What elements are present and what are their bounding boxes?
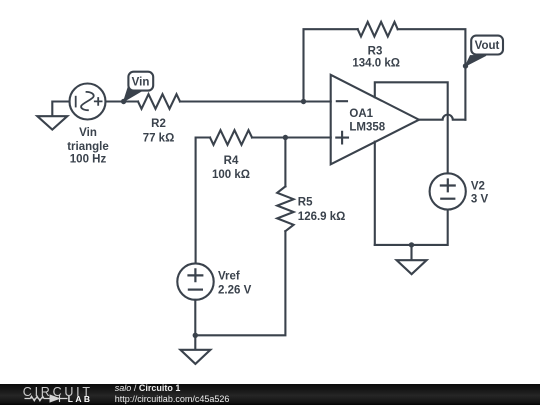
flag Vin box (128, 72, 153, 91)
wire R4 left lead and vertical to Vref (196, 138, 210, 264)
voltage source Vin (V1) (70, 84, 106, 120)
resistor R4 (210, 130, 252, 145)
node dot plus input / R5 (283, 135, 288, 140)
op-amp V+ pin and rail to V2 (375, 82, 448, 173)
op-amp OA1 triangle (331, 75, 419, 165)
svg-text:134.0 kΩ: 134.0 kΩ (352, 58, 400, 70)
svg-text:R3: R3 (368, 45, 383, 57)
ground (Vref) (180, 335, 210, 364)
node dot Vout tap (463, 63, 468, 68)
wire Vin left to ground (52, 102, 69, 116)
wire Vin right to R2 (106, 100, 139, 102)
ground (Vin) (37, 116, 67, 129)
wire R5 bottom to ground rail (195, 231, 285, 335)
op-amp minus symbol (337, 100, 347, 102)
resistor R3 (358, 22, 398, 37)
op-amp plus symbol (336, 132, 348, 144)
voltage source V2 (430, 173, 466, 209)
svg-text:Vout: Vout (475, 40, 500, 52)
svg-text:100 kΩ: 100 kΩ (212, 169, 250, 181)
resistor R5 (277, 186, 293, 231)
voltage source Vref (177, 263, 213, 299)
footer bar (0, 384, 540, 405)
svg-text:LAB: LAB (68, 394, 93, 404)
svg-text:V2: V2 (471, 181, 485, 193)
footer logo resistor-diode glyph (25, 395, 68, 402)
svg-text:R2: R2 (151, 118, 166, 130)
svg-text:R4: R4 (224, 155, 239, 167)
wire R2 to op-amp inverting input (180, 100, 331, 102)
svg-text:100 Hz: 100 Hz (70, 154, 107, 166)
node dot inverting input / R3 (301, 99, 306, 104)
ground (V2 rail) (397, 245, 427, 274)
svg-text:126.9 kΩ: 126.9 kΩ (298, 211, 346, 223)
svg-text:salo / Circuito 1: salo / Circuito 1 (115, 384, 181, 393)
node dot V2 ground rail (409, 242, 414, 247)
svg-text:3 V: 3 V (471, 194, 489, 206)
wire R3 feedback loop left/top/right (304, 29, 466, 120)
svg-text:Vin: Vin (132, 77, 150, 89)
flag Vout pointer (466, 55, 487, 66)
wire plus input from R4/R5 node (285, 136, 330, 138)
svg-text:R5: R5 (298, 196, 313, 208)
svg-text:LM358: LM358 (349, 122, 385, 134)
op-amp output wire with hop (419, 115, 465, 120)
flag Vin pointer (124, 85, 143, 102)
wire R4 right to node (252, 136, 285, 138)
op-amp V- pin down to bottom rail (374, 142, 376, 245)
node dot Vref ground (193, 333, 198, 338)
svg-text:triangle: triangle (67, 141, 109, 153)
wire node down to R5 (284, 138, 286, 187)
flag Vout box (471, 36, 503, 55)
svg-text:Vref: Vref (218, 271, 240, 283)
wire V2 bottom rail to op-amp V- (375, 210, 448, 245)
svg-text:http://circuitlab.com/c45a526: http://circuitlab.com/c45a526 (115, 394, 230, 404)
node dot Vin tap (121, 99, 126, 104)
resistor R2 (138, 94, 180, 109)
svg-text:Vin: Vin (79, 127, 97, 139)
svg-text:2.26 V: 2.26 V (218, 285, 252, 297)
svg-text:OA1: OA1 (349, 108, 373, 120)
svg-text:77 kΩ: 77 kΩ (143, 132, 175, 144)
wire Vref bottom to ground node (194, 300, 196, 336)
